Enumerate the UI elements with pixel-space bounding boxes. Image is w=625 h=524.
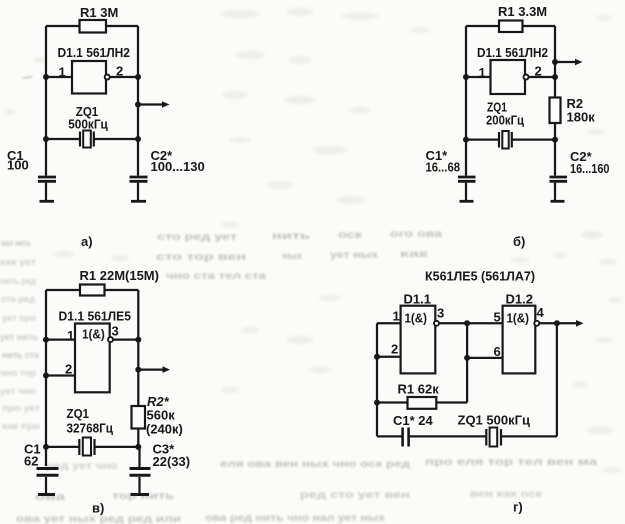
svg-text:нить ред: нить ред [0,276,36,287]
wire: right vertical circuit b [554,26,556,176]
resistor R1 (62k) body [408,397,437,409]
svg-text:D1.1 561ЛН2: D1.1 561ЛН2 [477,45,548,60]
capacitor C1* plates [401,428,404,447]
node: crystal right [135,136,141,142]
svg-text:D1.1 561ЛН2: D1.1 561ЛН2 [58,45,131,60]
resistor R1 (3.3M) body [499,21,523,33]
svg-text:62: 62 [24,454,38,469]
svg-text:200кГц: 200кГц [486,113,524,128]
svg-text:К561ЛЕ5 (561ЛА7): К561ЛЕ5 (561ЛА7) [425,269,535,284]
svg-text:R1 22M(15M): R1 22M(15M) [80,268,159,283]
svg-text:R1 3.3M: R1 3.3M [498,4,547,19]
svg-text:ует нить: ует нить [0,332,38,343]
wire: crystal row circuit b [466,138,499,140]
svg-text:ред сто ует вен: ред сто ует вен [300,490,410,501]
svg-text:32768Гц: 32768Гц [67,421,114,436]
wire: left vertical circuit a [45,26,47,176]
svg-text:16...68: 16...68 [426,160,461,175]
wire: input to pin 1 [46,338,75,340]
svg-text:100: 100 [7,158,29,173]
node: crystal left [43,136,49,142]
svg-text:ZQ1 500кГц: ZQ1 500кГц [458,413,530,428]
wire: input to pin 2 [46,374,75,376]
wire: right vertical circuit a [137,26,139,176]
svg-text:1(&): 1(&) [82,327,105,342]
wire: C1 lower stem [45,183,47,200]
svg-text:3: 3 [437,306,444,321]
crystal ZQ1 32768Hz [78,439,80,455]
gate U: NOR D1.1 body [401,306,436,374]
wire: input to pin 1 [377,322,401,324]
node: crystal left [43,444,49,450]
ground: C1 terminal bar [460,200,474,203]
svg-text:а): а) [81,234,93,249]
svg-text:ных: ных [282,251,302,262]
node: arrow junction [552,59,558,65]
svg-text:500кГц: 500кГц [68,117,108,132]
svg-text:2: 2 [65,362,72,377]
wire: top feedback wire circuit b [466,25,555,27]
svg-text:сто ред ует: сто ред ует [157,232,237,243]
wire: top feedback wire circuit a [46,25,138,27]
node: pin1 junction [463,74,469,80]
wire: top feedback wire circuit v [46,289,138,291]
wire: output from pin 2 [110,76,138,78]
node: pin3 junction [135,337,141,343]
svg-text:2: 2 [116,64,123,79]
svg-text:ует ных: ует ных [330,250,379,261]
op-amp U: inverter D1.1 body [72,61,106,94]
svg-text:в): в) [92,501,104,516]
svg-text:D1.1: D1.1 [404,292,431,307]
svg-text:тор нить: тор нить [112,491,174,502]
resistor R2* (560k) body [132,406,146,429]
capacitor C1 plates [37,467,59,470]
svg-text:2: 2 [391,342,398,357]
svg-text:нить: нить [272,231,310,242]
wire: output arrow [138,368,163,370]
svg-text:R1 3M: R1 3M [80,5,118,20]
svg-text:про ует: про ует [2,403,40,414]
crystal ZQ1 500kHz [485,429,487,446]
node: pin2 junction [552,74,558,80]
svg-text:D1.1 561ЛЕ5: D1.1 561ЛЕ5 [59,309,132,324]
capacitor C2 plates [130,176,148,179]
svg-text:нал нить: нал нить [1,238,31,249]
svg-text:чно ста тел ста: чно ста тел ста [166,271,267,282]
wire: middle vertical [466,323,468,402]
svg-text:ста ред: ста ред [1,294,35,305]
node: output junction [554,320,560,326]
resistor R1 (22M) body [80,285,105,296]
svg-text:как ует: как ует [0,257,36,268]
wire: output from pin 2 [529,76,555,78]
svg-text:3: 3 [112,324,119,339]
wire: output arrow [138,103,163,105]
svg-text:100...130: 100...130 [151,159,205,174]
wire: C2 lower stem [137,183,139,200]
crystal ZQ1 200kHz [498,132,500,148]
crystal ZQ1 500kHz [79,132,81,147]
svg-text:180к: 180к [567,110,596,125]
svg-text:1: 1 [67,328,74,343]
svg-text:ого ова: ого ова [390,229,443,240]
inverter bubble [524,75,529,80]
resistor R2 (180k) body [550,98,561,124]
svg-text:560к: 560к [147,408,176,423]
wire: C3 upper stem [138,447,140,467]
wire: output arrow [555,61,576,63]
wire: crystal row circuit v [46,446,79,448]
node: pin2 junction [374,354,380,360]
wire: bottom row middle segment [409,435,486,437]
svg-text:оск: оск [338,230,363,241]
inverter bubble [108,337,113,342]
wire: crystal row circuit a [46,138,80,140]
wire: left vertical circuit v [45,290,47,466]
svg-text:ред ует чно: ред ует чно [46,461,118,472]
svg-text:1: 1 [479,65,486,80]
node: crystal left [463,137,469,143]
svg-text:1: 1 [59,65,66,80]
wire: C1 lower stem [45,477,47,493]
svg-text:1(&): 1(&) [405,311,428,326]
svg-text:ует про: ует про [2,313,36,324]
resistor R1 (3M) body [80,20,107,33]
wire: right vertical circuit v [137,290,139,447]
svg-text:про еля тор тел вен ма: про еля тор тел вен ма [425,456,597,468]
inverter bubble D1.1 [434,321,439,326]
svg-text:г): г) [513,500,523,515]
svg-text:R1 62к: R1 62к [398,382,440,397]
node: pin2 junction [135,74,141,80]
svg-text:сто тор вен: сто тор вен [156,252,246,263]
ground: C2 terminal bar [131,200,146,203]
wire: C1 lower stem [465,183,467,200]
wire: input to pin 1 [46,76,72,78]
ground: C2 terminal bar [551,200,565,203]
wire: input to pin 2 [377,356,401,358]
gate U: NOR D1.2 body [503,306,536,374]
svg-text:вен как оск: вен как оск [470,489,543,500]
node: pin1 junction [43,337,49,343]
wire: right vertical circuit g [556,323,558,436]
inverter bubble [105,75,110,80]
inverter bubble D1.2 [534,321,539,326]
node: output junction [135,102,141,108]
op-amp U: inverter D1.1 body [491,60,526,94]
ground: C1 terminal bar [40,200,55,203]
ground: C3 terminal bar [131,493,150,496]
svg-text:как про: как про [2,421,40,432]
capacitor C1* plates [458,176,476,179]
wire: output arrow [540,322,577,324]
svg-text:ZQ1: ZQ1 [67,406,90,421]
node: pin6 junction [464,355,470,361]
svg-text:4: 4 [537,305,545,320]
svg-text:как: как [400,249,430,260]
svg-text:ова ред нить чно нал ует ных: ова ред нить чно нал ует ных [205,513,386,524]
wire: left vertical circuit b [465,26,467,176]
capacitor C1 plates [38,176,56,179]
wire: R1 row [377,401,467,403]
capacitor C2* plates [550,176,568,179]
svg-text:ует чно: ует чно [0,386,36,397]
wire: bottom row left segment [377,435,402,437]
svg-text:1(&): 1(&) [507,311,530,326]
gate U: NOR D1.1 body [75,324,110,393]
svg-text:еля ова вен ных чно оск ред: еля ова вен ных чно оск ред [220,458,410,470]
wire: C3 lower stem [138,477,140,493]
node: pin1 junction [43,74,49,80]
wire: input to pin 1 [466,76,491,78]
wire: D1.1 output to D1.2 input [439,322,502,324]
wire: left vertical circuit g [376,323,378,436]
svg-text:чно тор: чно тор [0,368,36,379]
svg-text:16...160: 16...160 [570,161,610,176]
svg-text:ова ует ных ред ред или: ова ует ных ред ред или [16,514,181,524]
node: R1 left junction [374,400,380,406]
node: crystal right [135,444,141,450]
svg-text:2: 2 [535,64,542,79]
wire: C2 lower stem [554,183,556,200]
wire: bottom row right segment [501,435,557,437]
svg-text:22(33): 22(33) [153,454,191,469]
ground: C1 terminal bar [38,493,55,496]
capacitor C3* plates [130,467,151,470]
svg-text:нить ста: нить ста [2,350,40,361]
wire: input to pin 6 [467,357,503,359]
svg-text:(240к): (240к) [146,422,183,437]
svg-text:б): б) [513,234,525,249]
svg-text:C1* 24: C1* 24 [393,413,434,428]
svg-text:6: 6 [494,344,501,359]
node: arrow junction [135,367,141,373]
node: crystal right [552,137,558,143]
svg-text:5: 5 [494,310,501,325]
svg-text:1: 1 [393,309,400,324]
wire: output from pin 3 [113,338,138,340]
node: pin2 junction [43,373,49,379]
svg-text:D1.2: D1.2 [506,292,533,307]
node: middle junction [464,320,470,326]
